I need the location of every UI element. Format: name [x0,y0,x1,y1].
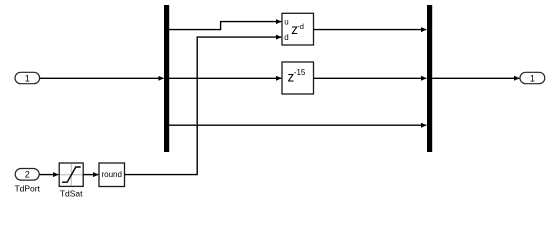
svg-text:-d: -d [297,22,304,31]
svg-text:2: 2 [25,170,30,180]
wire Z-15 out to mux [314,77,427,79]
svg-text:1: 1 [25,73,30,83]
mux bar right [427,5,432,152]
inport 1 [15,72,40,83]
svg-text:TdSat: TdSat [60,188,83,198]
demux bar left [164,5,169,152]
wire round to d input of Z-d [125,37,282,175]
variable delay block Z^-d [282,13,314,45]
wire demux to mux (passthrough) [169,124,426,126]
wire inport2 to TdSat [40,174,59,176]
wire TdSat to round [83,174,98,176]
wire mux to outport [432,77,519,79]
wire inport1 to demux [40,77,164,79]
outport 1 [520,72,545,83]
saturation block TdSat [59,163,83,198]
delay block Z^-15 [282,62,314,94]
inport 2 TdPort [14,169,40,194]
rounding block round [99,163,125,187]
svg-text:1: 1 [530,73,535,83]
wire demux to u input of Z-d [169,22,281,30]
svg-text:TdPort: TdPort [14,183,40,193]
wire Z-d out to mux [314,29,427,31]
svg-text:u: u [284,17,288,26]
svg-text:round: round [101,170,121,179]
svg-text:d: d [284,33,288,42]
svg-text:-15: -15 [294,68,306,77]
wire demux to Z-15 [169,77,281,79]
